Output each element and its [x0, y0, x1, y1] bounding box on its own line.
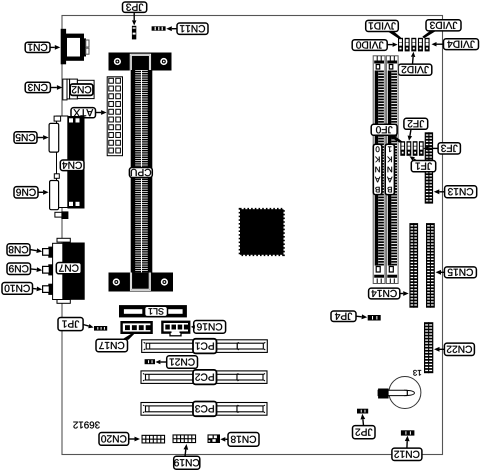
slot PC3 [141, 403, 267, 416]
audio jack CN9 [43, 264, 53, 275]
label PC3 [193, 402, 217, 417]
label CN11 [177, 23, 208, 34]
connector CN22 [424, 322, 433, 373]
label JF3 [438, 143, 460, 154]
connector CN2/CN3 USB stack [63, 79, 94, 100]
CPU slot bottom retention bar [109, 273, 174, 292]
connector ATX power [107, 77, 122, 156]
connector CN18 [208, 434, 221, 443]
label JF2 [404, 118, 428, 129]
leader CN13 [434, 189, 445, 194]
label CN17 [96, 339, 128, 351]
leader JF2 [408, 129, 413, 141]
jumper CN12 [401, 430, 415, 435]
leader JP1 [83, 324, 94, 328]
connector CN19 [173, 434, 197, 443]
label CN8 [7, 244, 30, 256]
label JF1 [411, 161, 435, 172]
label CN7 [56, 263, 81, 274]
label JVID3 [426, 20, 461, 31]
leader CN6 [38, 190, 49, 195]
connector CN14 [409, 223, 418, 308]
leader JVID3 [422, 31, 436, 39]
jumpers JVID0-JVID4 [398, 38, 430, 52]
leader JVID2 [411, 52, 415, 64]
label CN3 [25, 82, 50, 92]
label PC1 [193, 339, 217, 354]
leader JF3 [423, 146, 438, 151]
slot PC1 [142, 340, 268, 353]
label CN20 [99, 433, 129, 446]
battery BT1 [378, 377, 421, 409]
jumper CN21 [145, 359, 155, 364]
connector CN11 [152, 26, 166, 30]
leader JP3 [132, 12, 137, 25]
label CN22 [444, 343, 474, 355]
label CN19 [174, 456, 200, 469]
label JVID4 [444, 39, 479, 50]
label CN2 [70, 84, 93, 95]
label CN12 [392, 448, 422, 460]
connector CN7 audio block [53, 238, 85, 303]
label CN14 [369, 288, 400, 299]
leader CN3 [50, 85, 62, 90]
leader CN21 [155, 360, 166, 364]
label CN15 [444, 267, 476, 278]
battery designator 13 [413, 370, 421, 376]
jumper JP1 [94, 326, 107, 331]
label JVID0 [352, 40, 387, 51]
label CN10 [2, 283, 33, 295]
leader JP2 [361, 414, 366, 426]
label CN13 [445, 186, 477, 198]
jumper JP2 [357, 409, 368, 414]
leader CN16 [191, 325, 195, 329]
jumper JP4 [368, 315, 381, 321]
DIMM socket BANK0 [373, 56, 385, 284]
label ATX [71, 108, 96, 118]
label JP1 [58, 318, 83, 331]
leader CN22 [434, 347, 444, 352]
leader CN9 [31, 267, 43, 272]
connector CN5 serial D-sub [49, 116, 61, 152]
label CN21 [167, 356, 198, 369]
label JF0 [371, 124, 397, 135]
label CN1 [25, 42, 50, 52]
leader JF0 [387, 135, 403, 143]
connector CN16 [162, 322, 189, 336]
audio jack CN10 [43, 284, 53, 295]
leader CN15 [436, 270, 445, 275]
DIMM socket BANK1 [386, 56, 398, 284]
leader CN8 [30, 248, 42, 253]
leader CN19 [184, 444, 189, 456]
leader CN10 [33, 287, 43, 292]
connector CN13 [425, 132, 433, 203]
leader JF1 [410, 156, 417, 161]
leader JVID0 [387, 42, 397, 47]
connector CN17 [122, 322, 152, 333]
connector CN1 keyboard DIN [61, 29, 89, 65]
label SL1 [145, 306, 168, 316]
label JP2 [353, 426, 376, 439]
audio jack CN8 [43, 247, 53, 258]
label CN5 [14, 132, 37, 144]
connector CN20 [142, 435, 166, 444]
slot SL1 [119, 305, 187, 317]
leader CN1 [50, 45, 60, 50]
leader CN11 [166, 26, 177, 31]
chipset IC U1 [240, 209, 284, 255]
leader JVID1 [388, 31, 402, 38]
label JVID2 [398, 64, 432, 75]
leader JVID4 [432, 42, 444, 47]
connector CN6 D-sub [50, 174, 69, 219]
leader CN5 [37, 135, 49, 140]
CPU slot body [131, 70, 153, 273]
label JP3 [123, 2, 147, 12]
CPU slot top retention bar [109, 53, 172, 71]
label CPU [129, 168, 152, 178]
leader CN17 [122, 333, 135, 339]
leader CN18 [220, 437, 228, 442]
label CN9 [7, 263, 31, 275]
label JVID1 [366, 20, 399, 31]
board number 36912 [73, 422, 99, 429]
label BANK 1 [385, 144, 394, 195]
connector CN4 port block [57, 116, 85, 209]
jumper JP3 [132, 26, 136, 40]
label CN4 [60, 160, 84, 171]
label PC2 [193, 370, 217, 385]
leader JP4 [356, 314, 367, 319]
leader CN12 [405, 436, 410, 449]
board outline [62, 16, 443, 455]
leader CN14 [400, 291, 409, 296]
label CN16 [194, 321, 226, 334]
leader CN20 [129, 437, 140, 442]
label CN18 [228, 433, 259, 447]
label BANK 0 [373, 144, 382, 195]
leader ATX [96, 110, 107, 115]
jumpers JF0-JF3 [400, 141, 423, 156]
label CN6 [14, 187, 38, 198]
label JP4 [331, 311, 356, 322]
slot PC2 [141, 371, 267, 384]
connector CN15 [426, 223, 435, 308]
